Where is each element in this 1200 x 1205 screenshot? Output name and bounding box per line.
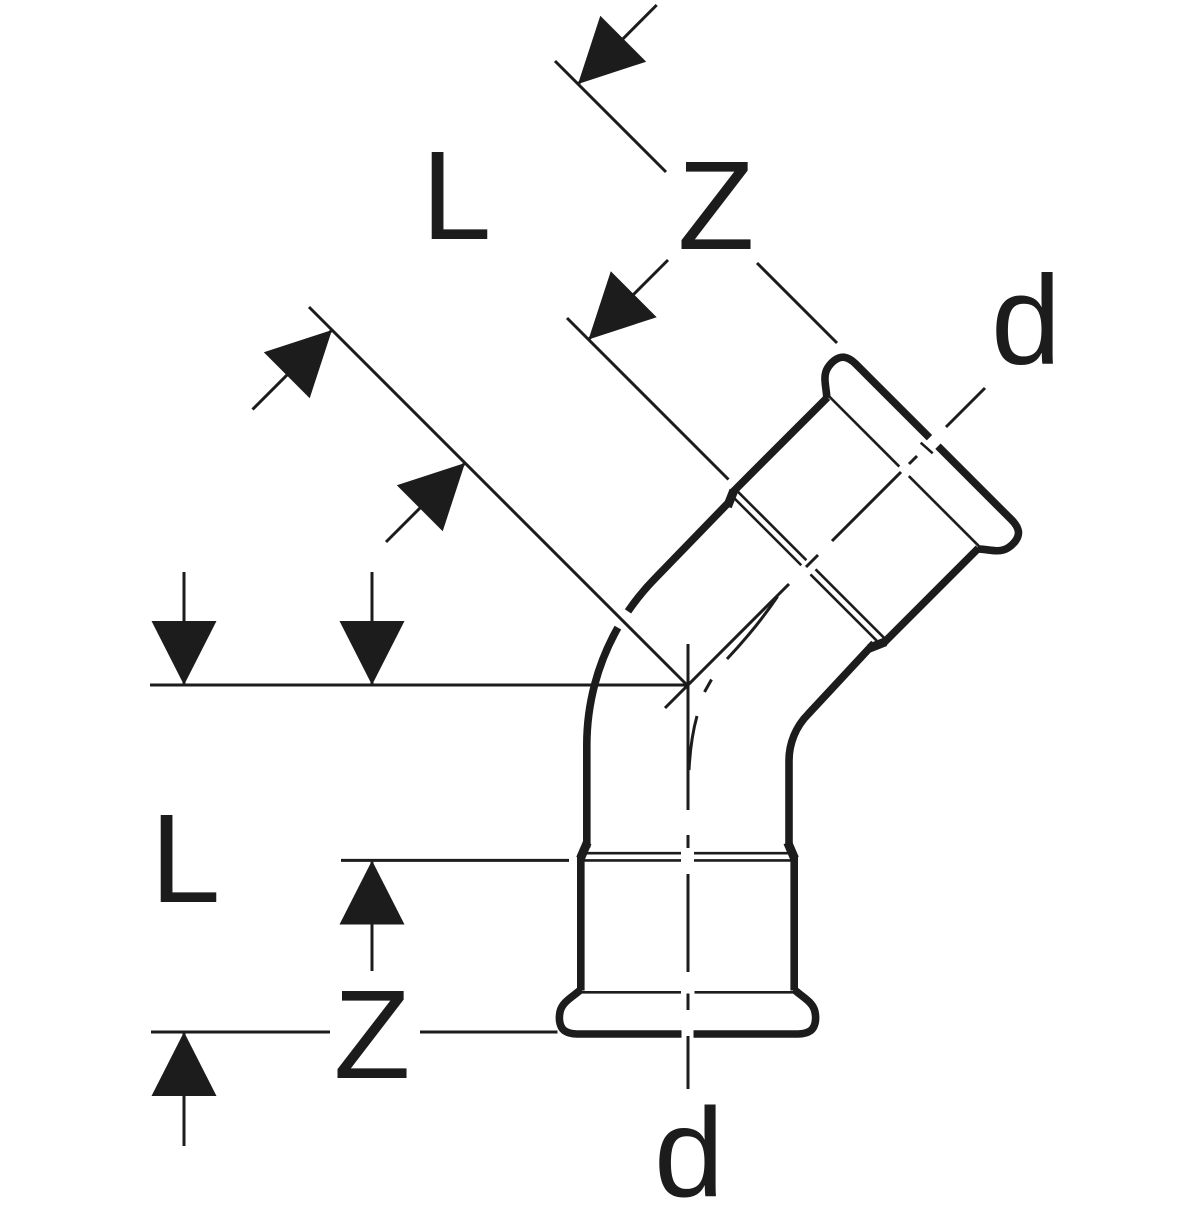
face crossing dash (921, 443, 933, 454)
arrow Z bottom-left (397, 463, 465, 531)
arrow up at x372 (340, 861, 405, 925)
svg-text:d: d (991, 250, 1061, 391)
arrow up at x184 (152, 1032, 217, 1096)
bottom Z rail tails (371, 572, 374, 971)
stop plane extension line (567, 318, 729, 480)
arrow L bottom-left (264, 330, 332, 398)
bend axis dash 1 (689, 716, 697, 770)
Z rail lower tail (386, 463, 465, 542)
centre plane extension line (309, 307, 688, 686)
upper press socket (45 deg) (708, 351, 1025, 668)
Z rail upper tail (589, 260, 669, 340)
45 deg centreline (665, 388, 985, 708)
centre plane horizontal line (150, 684, 688, 687)
stop plane horizontal line (341, 859, 569, 862)
face plane horizontal line (151, 1031, 558, 1034)
vertical centreline (687, 644, 690, 1089)
face plane extension line (555, 61, 837, 343)
body outer contour lower piece (587, 628, 618, 848)
arrow L top (578, 16, 646, 84)
L rail lower tail (253, 330, 333, 410)
arrow down at x372 (340, 621, 405, 685)
svg-text:Z: Z (678, 135, 755, 276)
arrow down at x184 (152, 621, 217, 685)
bottom L rail tails (183, 572, 186, 1146)
bend axis dash 2 (705, 680, 712, 693)
body outer contour upper piece (628, 501, 730, 611)
L rail upper tail (578, 5, 657, 84)
body inner (throat) contour (789, 643, 874, 847)
svg-text:d: d (654, 1082, 724, 1200)
svg-text:L: L (150, 788, 220, 929)
bottom press socket (559, 843, 815, 1035)
svg-text:Z: Z (334, 964, 411, 1105)
bend axis dash 3 (727, 597, 778, 660)
svg-text:L: L (421, 125, 491, 266)
arrow Z top (589, 271, 657, 339)
